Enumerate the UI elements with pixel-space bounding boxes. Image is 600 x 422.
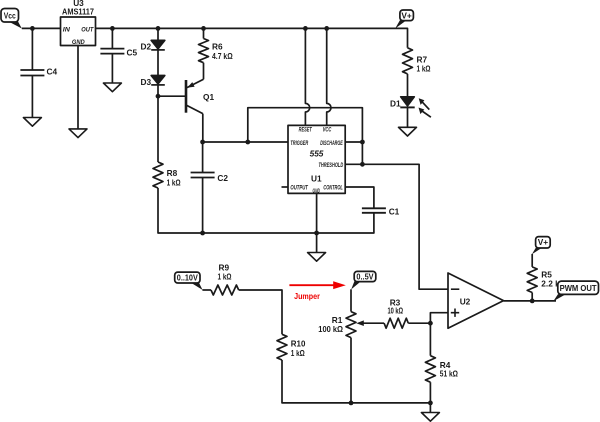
- svg-text:D3: D3: [141, 77, 152, 87]
- svg-text:U1: U1: [311, 173, 322, 183]
- svg-text:Jumper: Jumper: [294, 291, 320, 301]
- svg-text:100 kΩ: 100 kΩ: [318, 324, 343, 334]
- svg-text:CONTROL: CONTROL: [323, 185, 342, 192]
- svg-text:TRIGGER: TRIGGER: [290, 140, 308, 147]
- svg-text:51 kΩ: 51 kΩ: [440, 368, 458, 378]
- svg-text:1 kΩ: 1 kΩ: [417, 63, 431, 73]
- svg-text:GND: GND: [72, 39, 85, 46]
- svg-text:IN: IN: [63, 26, 71, 33]
- svg-text:10 kΩ: 10 kΩ: [387, 305, 403, 315]
- svg-text:Q1: Q1: [203, 92, 214, 102]
- svg-text:AMS1117: AMS1117: [62, 7, 94, 17]
- svg-text:V+: V+: [401, 10, 412, 20]
- svg-text:555: 555: [310, 148, 324, 158]
- svg-text:C4: C4: [47, 67, 58, 77]
- svg-text:4.7 kΩ: 4.7 kΩ: [212, 51, 233, 61]
- svg-text:VCC: VCC: [323, 127, 332, 134]
- svg-text:OUT: OUT: [81, 26, 94, 33]
- svg-text:0..10V: 0..10V: [177, 274, 199, 283]
- svg-text:D2: D2: [141, 41, 152, 51]
- svg-text:RESET: RESET: [299, 127, 313, 134]
- svg-text:C1: C1: [389, 206, 400, 216]
- svg-text:Vcc: Vcc: [4, 11, 16, 21]
- svg-text:C2: C2: [217, 173, 228, 183]
- svg-text:V+: V+: [538, 237, 549, 247]
- svg-text:GND: GND: [313, 189, 321, 195]
- svg-text:1 kΩ: 1 kΩ: [218, 272, 232, 282]
- svg-text:U2: U2: [460, 297, 471, 307]
- svg-text:C5: C5: [127, 47, 138, 57]
- svg-text:1 kΩ: 1 kΩ: [167, 177, 181, 187]
- svg-text:THRESHOLD: THRESHOLD: [319, 162, 344, 169]
- svg-text:OUTPUT: OUTPUT: [290, 185, 308, 192]
- svg-text:PWM OUT: PWM OUT: [560, 283, 598, 293]
- svg-text:DISCHARGE: DISCHARGE: [320, 140, 343, 147]
- svg-text:0..5V: 0..5V: [356, 273, 374, 282]
- svg-text:D1: D1: [390, 98, 401, 108]
- svg-text:1 kΩ: 1 kΩ: [291, 348, 305, 358]
